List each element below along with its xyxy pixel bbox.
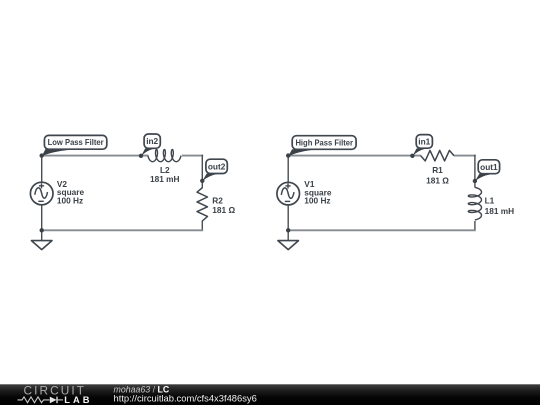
wire top left horizontal (V2 top to L2) bbox=[42, 155, 149, 157]
voltage source V1 bbox=[277, 182, 300, 205]
flag Low Pass Filter bbox=[42, 135, 107, 156]
label L1 value text bbox=[485, 196, 515, 216]
wire right vertical (corner to R2 top) bbox=[201, 155, 203, 189]
logo resistor zigzag bbox=[18, 397, 50, 403]
svg-text:LAB: LAB bbox=[64, 395, 92, 405]
wire top right horizontal (L2 to corner) bbox=[182, 155, 203, 157]
resistor R2 bbox=[197, 188, 208, 221]
wire top left horizontal (V1 top to R1) bbox=[288, 155, 421, 157]
flag High Pass Filter bbox=[288, 136, 356, 157]
wire left vertical (V1 bottom to ground) bbox=[287, 205, 289, 240]
wire left vertical (top wire to V2 top) bbox=[41, 155, 43, 182]
resistor R1 bbox=[421, 150, 454, 161]
ground (right) bbox=[278, 241, 299, 250]
svg-text:181 mH: 181 mH bbox=[485, 206, 515, 216]
label V1 value text bbox=[304, 179, 332, 205]
wire top right horizontal (R1 to corner) bbox=[454, 155, 476, 157]
flag in2 bbox=[141, 134, 160, 156]
svg-text:L1: L1 bbox=[485, 196, 495, 206]
svg-text:in2: in2 bbox=[146, 136, 158, 146]
svg-text:181 Ω: 181 Ω bbox=[426, 176, 449, 186]
wire left vertical (V2 bottom to ground) bbox=[41, 205, 43, 240]
node dot in1 bbox=[410, 154, 414, 158]
wire bottom horizontal (right circuit) bbox=[288, 229, 476, 231]
svg-text:181 Ω: 181 Ω bbox=[212, 205, 235, 215]
wire right vertical (R2 bottom to bottom wire) bbox=[201, 221, 203, 231]
node dot in2 bbox=[139, 154, 143, 158]
logo diode bbox=[50, 397, 63, 404]
inductor L1 bbox=[468, 187, 481, 220]
node dot (V2 top / in of LPF flag) bbox=[40, 153, 44, 157]
footer user/title text bbox=[114, 385, 170, 395]
logo LAB text bbox=[64, 395, 92, 405]
svg-text:in1: in1 bbox=[418, 136, 430, 146]
node dot out1 bbox=[473, 179, 477, 183]
flag in1 bbox=[412, 135, 432, 157]
label R2 value text bbox=[212, 196, 235, 215]
svg-text:out1: out1 bbox=[480, 162, 498, 172]
svg-text:100 Hz: 100 Hz bbox=[57, 195, 83, 205]
node dot (V2 bottom / ground net) bbox=[40, 228, 44, 232]
ground (left) bbox=[31, 241, 52, 250]
node dot (V1 top / in of HPF flag) bbox=[286, 153, 290, 157]
svg-text:181 mH: 181 mH bbox=[150, 174, 180, 184]
svg-text:out2: out2 bbox=[208, 161, 226, 171]
flag out1 bbox=[475, 160, 500, 182]
inductor L2 bbox=[148, 150, 181, 162]
wire right vertical (corner to L1 top) bbox=[474, 155, 476, 188]
svg-text:http://circuitlab.com/cfs4x3f4: http://circuitlab.com/cfs4x3f486sy6 bbox=[114, 393, 257, 404]
svg-text:High Pass Filter: High Pass Filter bbox=[295, 137, 353, 147]
wire right vertical (L1 bottom to bottom wire) bbox=[474, 221, 476, 230]
svg-text:Low Pass Filter: Low Pass Filter bbox=[48, 137, 105, 147]
node dot (V1 bottom / ground net right) bbox=[286, 228, 290, 232]
wire left vertical (top wire to V1 top) bbox=[287, 155, 289, 182]
label L2 value text bbox=[150, 165, 180, 184]
logo CIRCUIT text bbox=[24, 383, 87, 397]
voltage source V2 bbox=[30, 182, 53, 205]
label R1 value text bbox=[426, 165, 449, 185]
footer url text bbox=[114, 393, 257, 404]
wire bottom horizontal bbox=[42, 229, 204, 231]
node dot out2 bbox=[200, 179, 204, 183]
footer bar background bbox=[0, 384, 540, 405]
label V2 value text bbox=[57, 179, 85, 205]
flag out2 bbox=[202, 159, 227, 181]
svg-text:100 Hz: 100 Hz bbox=[304, 196, 330, 206]
svg-text:R1: R1 bbox=[432, 165, 443, 175]
